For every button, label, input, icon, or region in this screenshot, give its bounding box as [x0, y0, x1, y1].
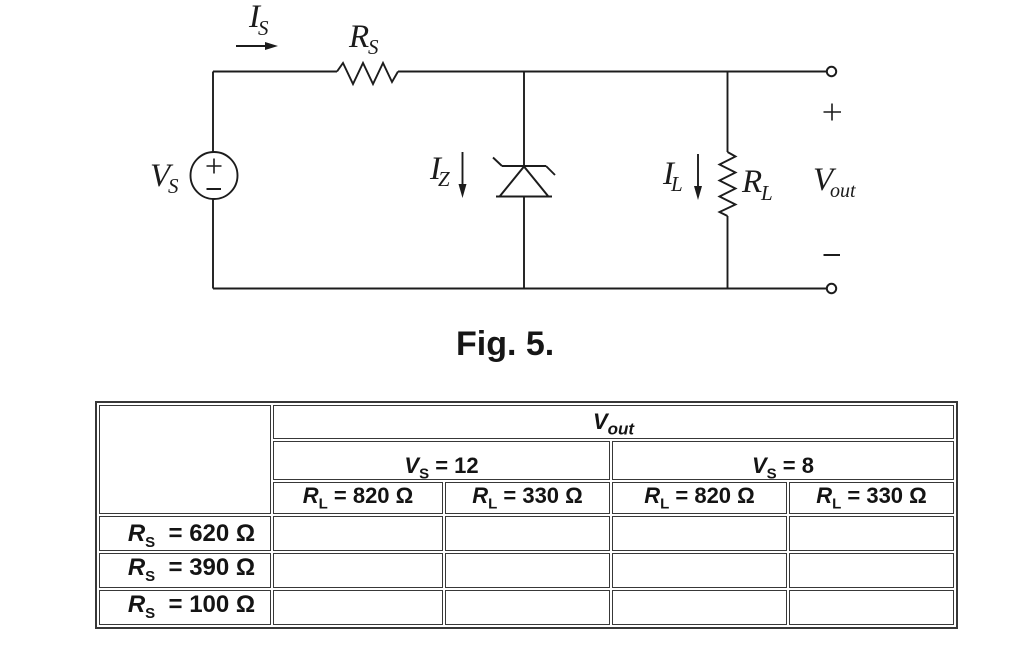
svg-text:L: L: [670, 172, 683, 196]
current arrow IL: [694, 154, 702, 200]
voltage source VS circle: [191, 152, 238, 199]
wire zener branch lower: [523, 197, 525, 289]
label Vout: [813, 162, 856, 202]
zener diode D1 triangle: [496, 167, 552, 197]
label IL: [662, 156, 683, 196]
resistor RL: [720, 152, 736, 216]
data table: [95, 401, 958, 629]
zener diode D1 cathode bar: [493, 158, 555, 176]
resistor RS: [337, 63, 398, 84]
wire zener branch upper: [523, 72, 525, 167]
svg-text:Z: Z: [438, 167, 450, 191]
wire load branch lower: [727, 216, 729, 289]
label RS: [348, 19, 379, 59]
wire bottom: [213, 288, 827, 290]
output minus sign: [824, 254, 841, 256]
label RL: [741, 164, 773, 205]
current arrow IZ: [459, 152, 467, 198]
output terminal top: [827, 67, 836, 76]
svg-text:S: S: [168, 174, 179, 198]
label VS: [150, 158, 179, 198]
wire left upper: [212, 72, 214, 153]
caption Fig. 5.: [456, 325, 554, 364]
VS plus sign: [207, 159, 222, 174]
label IZ: [429, 151, 450, 191]
svg-text:L: L: [760, 181, 773, 205]
svg-text:R: R: [348, 19, 369, 55]
VS minus sign: [207, 188, 222, 190]
wire top-right segment: [398, 71, 827, 73]
output plus sign: [824, 104, 842, 121]
svg-text:out: out: [830, 180, 856, 202]
current arrow IS: [236, 42, 278, 50]
wire load branch upper: [727, 72, 729, 153]
wire left lower: [212, 199, 214, 289]
svg-text:S: S: [368, 35, 379, 59]
svg-text:R: R: [741, 164, 762, 200]
wire top-left segment: [213, 71, 337, 73]
output terminal bottom: [827, 284, 836, 293]
svg-text:S: S: [258, 16, 269, 40]
label IS: [248, 0, 269, 40]
